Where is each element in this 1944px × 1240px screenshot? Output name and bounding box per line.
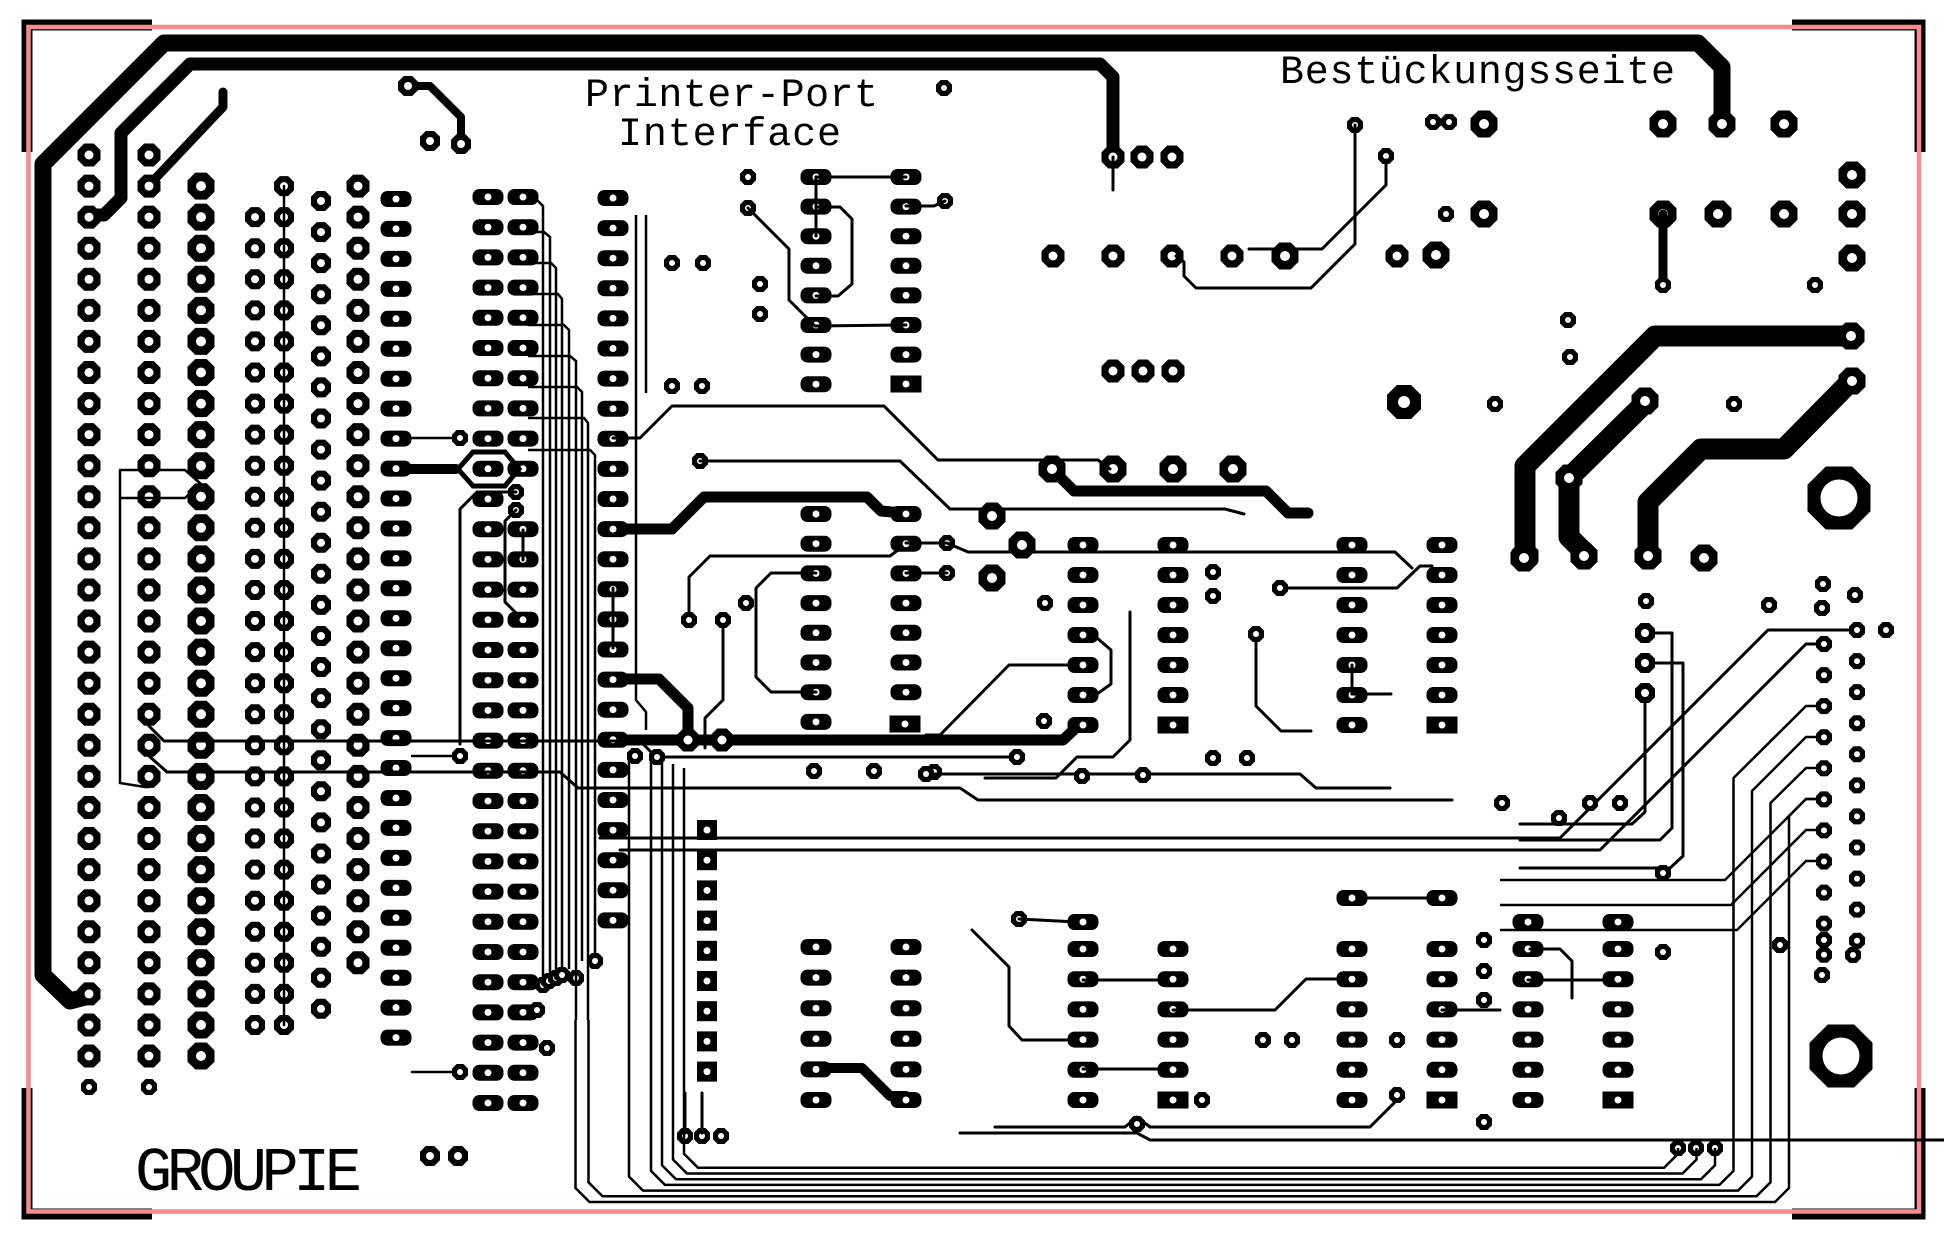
wire oval H to via 1 [412,437,455,440]
square pad column L [697,820,717,1082]
wire U7 via link [1442,1009,1500,1012]
left center via [1037,595,1053,611]
wire U4 to via [1352,693,1391,696]
IC U8 right column [1603,941,1634,1078]
board frame corner bracket top-left [27,25,152,152]
thick jog trace bottom center [816,1068,906,1096]
thick trace T2 right side [1569,403,1645,552]
wire to U6 [972,930,1077,1040]
right vias [1487,312,1742,412]
board frame corner bracket top-right [1792,25,1920,152]
wire band2 c [926,774,1390,788]
wire col K chain [612,588,615,648]
wire U4 link [1083,979,1167,982]
wire via to U2 top [689,547,902,618]
via chain column E [274,176,294,1035]
board frame corner bracket bottom-left [27,1088,152,1214]
thick power bus center [613,724,1080,740]
IC U5 pin1 square [1427,717,1458,734]
connector column B (J1) [138,144,161,1068]
top right pads row2 [1471,201,1798,228]
vias near column J [508,484,524,518]
pad row X3 [1042,245,1409,268]
wire band1 b [700,461,1244,514]
wire loop right a [1520,633,1672,840]
thick trace T1 right side [1525,336,1844,556]
IC U2 pin1 square [890,716,921,733]
wire band2 d [620,644,1816,850]
wire trio link [1112,157,1115,190]
wire bottom long b [960,1133,1944,1140]
oval column H (R-pack) [381,191,412,1046]
wire U6 to via r [1352,897,1436,900]
vias mid center [627,612,942,780]
wire bottom long a [995,1100,1397,1127]
thick trace T3 right side [1648,383,1849,554]
stub via trio a [684,1093,687,1133]
mount hole pad bottom [1810,1025,1873,1088]
wire U1 col link [815,177,818,236]
pad row X4 [1039,456,1247,483]
IC U2 right column [891,506,922,700]
right edge connector col B [1849,622,1865,949]
IC U8 pin1 square [1603,1092,1634,1109]
wire band1 a [613,406,1110,469]
IC U6 left column [1068,941,1099,1108]
wire U2 via link b [906,572,947,575]
wire via chain x [1176,125,1355,288]
silkscreen label line2 [618,113,841,158]
wire step left U4 [985,612,1130,778]
wire U4 loop [1097,638,1111,694]
wire band2 e [600,630,1848,838]
connector column A (J1) [78,144,101,1068]
tall wires center [636,215,646,730]
IC U7 right column [1427,941,1458,1078]
IC U4 pin1 square [1158,717,1189,734]
pad row X1 [1102,146,1184,169]
thick trace to U-col [613,497,903,529]
wire U1 row link [816,176,906,179]
wire top elbow [408,86,461,144]
IC U1 left column [801,169,832,392]
via band1 b start [692,453,708,469]
header column F [311,191,331,1019]
thick stub left oval column [397,464,456,474]
right edge connector col A [1816,636,1832,963]
IC U4 left column [1068,537,1099,733]
wire box to pad [120,498,149,787]
bundle A end vias [535,953,603,993]
IC U8 left column [1513,941,1544,1108]
board frame corner bracket bottom-right [1792,1088,1920,1214]
vias right of U2 [664,255,955,581]
stub pad to via [1659,214,1668,285]
bottom bundle end vias [1670,1140,1723,1156]
mount hole pad top [1808,467,1871,530]
via band2 a [649,749,1025,765]
pads on power bus [677,729,734,752]
thick trace end pads [1511,323,1866,572]
wire U8 links [1528,979,1612,982]
fan diagonals to right connector [1500,799,1818,930]
wire via to U6 pad [1019,919,1077,922]
wire U6 right link [1173,979,1340,1010]
vias right of oval column H [452,430,468,1080]
vias band1 [1205,564,1288,604]
vias lower right block [1494,795,1671,881]
silkscreen label line1 [585,74,878,119]
header column D [245,207,265,1035]
wire oval H to via 3 [412,1071,455,1074]
connector column C [188,173,215,1070]
wire via row link [1280,566,1432,588]
wire band2 b [149,756,1452,800]
wire U1 to via [906,201,945,206]
bottom vias near GROUPIE [420,1146,468,1166]
wire U2 left loop [756,573,816,692]
wire col J chain [522,530,525,560]
pad row X2 [1102,360,1185,383]
trace pad J2 to column [149,92,223,182]
wire via down left [705,618,723,748]
oval column K (RN) [598,190,629,928]
top right pads row1 [1471,111,1798,138]
pad row X3 large [1272,242,1450,270]
wire x2 [1249,160,1386,249]
svg-text:GROUPIE: GROUPIE [135,1138,362,1209]
wire U4 col link [1351,665,1354,694]
wire loop right b [1520,663,1683,868]
ground trace around left and top edge [43,43,1722,1001]
IC U2 left column [801,506,832,730]
pad column right of center [1635,623,1655,703]
big pad C9 [1387,385,1421,419]
wire pad col down [1520,693,1645,824]
wire feed U4 [926,665,1077,735]
vias near U4 [1036,626,1264,784]
bottom right small vias [1638,576,1894,638]
silkscreen label GROUPIE [135,1138,362,1209]
IC U5 right column [1427,537,1458,703]
oval extra U7 [1337,890,1458,906]
stub via trio b [701,1093,704,1133]
oval column I left [473,189,504,1111]
extra oval row U8 [1513,914,1634,930]
header column G [347,175,370,975]
bottom center vias [529,911,1405,1144]
wire U6 row link [1083,1068,1160,1071]
pads top elbow [398,76,471,154]
top right vias [1347,114,1823,293]
via near U6 square [1194,1092,1210,1108]
left connector box outline [120,470,201,498]
wire from via down [1256,640,1311,731]
IC U1 pin1 square [891,376,922,393]
IC U3 right column [891,939,922,1108]
IC U6 pin1 square [1158,1092,1189,1109]
wire via J down long [460,492,516,744]
left center big pads [979,503,1036,592]
via below column B [141,1079,157,1095]
vertical trace bundle center-left [528,201,595,1020]
wire U2 via link a [906,542,947,545]
supply trace along top edge [89,64,1113,215]
via below column A [81,1079,97,1095]
thick trace right of center [1052,469,1308,513]
bottom mid vias2 [1255,932,1861,1130]
svg-text:Bestückungsseite: Bestückungsseite [1280,51,1675,96]
svg-text:Interface: Interface [618,113,841,158]
via band2 c [918,766,934,782]
wire band1 c [947,543,1412,568]
chain link wire column E [283,186,286,1025]
jumper ring around pad [458,452,519,486]
wire band2 a [149,726,1012,757]
wire U1 Z link [816,207,852,296]
wire U8 link2 [1530,949,1572,998]
IC U3 left column [801,939,832,1108]
wire via J down short [505,510,516,613]
top right pads col [1839,162,1866,272]
IC U7 pin1 square [1427,1092,1458,1109]
data bus bundle to bottom right [576,706,1819,1202]
silkscreen label top-right [1280,51,1675,96]
vias near U1 [738,80,953,611]
wire via to U1 [748,208,906,326]
IC U1 right column [891,169,922,363]
IC U5 left column [1337,537,1368,733]
oval column J right [508,189,539,1111]
IC U7 left column [1337,941,1368,1108]
thick stub to bus [613,679,688,738]
wire oval H to via 2 [412,755,455,758]
IC U4 right column [1158,537,1189,703]
IC U6 right column [1158,941,1189,1078]
extra oval U6 [1068,914,1099,930]
